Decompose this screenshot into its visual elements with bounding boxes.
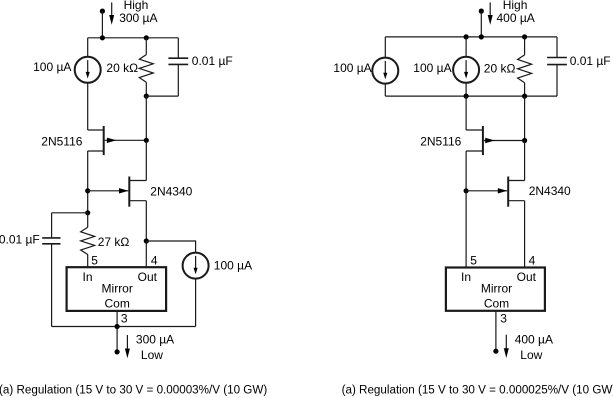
arrow inside I3 bbox=[383, 61, 387, 79]
svg-text:3: 3 bbox=[500, 311, 507, 325]
wire rail to Low terminal (left) bbox=[116, 327, 118, 352]
current source I4 100uA (right, inner) bbox=[453, 57, 479, 83]
svg-text:4: 4 bbox=[529, 254, 536, 268]
resistor R1 20k (left) bbox=[139, 38, 153, 96]
wire Q3 drain down to Q4 gate node (right) bbox=[465, 151, 467, 191]
svg-text:5: 5 bbox=[470, 254, 477, 268]
svg-text:3: 3 bbox=[121, 311, 128, 325]
current flow arrow High (left) bbox=[109, 2, 114, 24]
junction dot top rail / I4 (right) bbox=[464, 34, 469, 39]
svg-text:20 kΩ: 20 kΩ bbox=[106, 61, 138, 75]
wire top rail (right) bbox=[385, 36, 557, 38]
wire R1 bottom to capacitor C1 (left) bbox=[146, 95, 178, 97]
junction dot top rail / terminal (right) bbox=[479, 34, 484, 39]
svg-text:Low: Low bbox=[141, 348, 163, 362]
junction dot Q4 gate node (right) bbox=[464, 188, 469, 193]
svg-text:High: High bbox=[503, 0, 528, 12]
wire top rail to current source I1 (left) bbox=[87, 38, 89, 57]
junction dot top rail / 20k resistor (left) bbox=[144, 35, 149, 40]
op-amp block U1 Mirror (left) bbox=[67, 267, 167, 311]
wire pin 3 to Low terminal (right) bbox=[495, 311, 497, 351]
svg-text:Com: Com bbox=[105, 297, 130, 311]
wire R3 bottom down to Q3 gate (right) bbox=[524, 96, 526, 140]
junction dot bottom wire / R3 (right) bbox=[522, 94, 527, 99]
svg-text:2N4340: 2N4340 bbox=[529, 184, 571, 198]
svg-text:In: In bbox=[461, 270, 471, 284]
current source I1 100uA (left) bbox=[75, 57, 101, 83]
wire top rail to current source I4 (right) bbox=[465, 37, 467, 57]
node Low terminal (left) bbox=[115, 349, 120, 354]
svg-text:5: 5 bbox=[91, 253, 98, 267]
junction dot bottom rail (left) bbox=[115, 324, 120, 329]
svg-text:400 µA: 400 µA bbox=[515, 332, 553, 346]
svg-text:Com: Com bbox=[484, 297, 509, 311]
wire I4 to bottom wire (right) bbox=[465, 83, 467, 96]
wire Q1 drain down to Q2 gate node (left) bbox=[87, 151, 89, 213]
wire gate node down to Q4 drain corner (right) bbox=[524, 141, 526, 181]
junction dot Q2 gate node (left) bbox=[85, 188, 90, 193]
current flow arrow Low (left) bbox=[125, 335, 130, 358]
wire Q2 source to Out node (left) bbox=[145, 201, 147, 241]
svg-text:Low: Low bbox=[520, 348, 542, 362]
svg-text:(a) Regulation (15 V to 30 V =: (a) Regulation (15 V to 30 V = 0.00003%/… bbox=[0, 383, 267, 396]
current flow arrow Low (right) bbox=[504, 335, 509, 358]
wire I2 to bottom rail (left) bbox=[195, 279, 197, 327]
svg-text:100 µA: 100 µA bbox=[333, 61, 371, 75]
wire bottom wire to Q3 source lead (right) bbox=[465, 96, 467, 130]
svg-text:100 µA: 100 µA bbox=[413, 61, 451, 75]
junction dot left cap branch (left) bbox=[85, 210, 90, 215]
wire Out node to pin 4 (left) bbox=[145, 241, 147, 267]
current source I3 100uA (right, outer) bbox=[372, 58, 398, 84]
svg-text:4: 4 bbox=[151, 253, 158, 267]
capacitor C1 0.01uF (top left circuit) bbox=[168, 38, 188, 96]
wire Out node to current source I2 (left) bbox=[146, 241, 195, 253]
svg-text:20 kΩ: 20 kΩ bbox=[484, 61, 516, 75]
junction dot top rail / 20k resistor (right) bbox=[522, 34, 527, 39]
svg-text:27 kΩ: 27 kΩ bbox=[98, 235, 130, 249]
bottom rail (left) bbox=[52, 326, 196, 328]
svg-text:Out: Out bbox=[517, 270, 537, 284]
junction dot Out node (left) bbox=[144, 238, 149, 243]
svg-text:Mirror: Mirror bbox=[102, 282, 133, 296]
junction dot bottom of R1 (left) bbox=[144, 94, 149, 99]
svg-text:Out: Out bbox=[138, 270, 158, 284]
svg-text:2N5116: 2N5116 bbox=[41, 134, 82, 148]
transistor Q3 2N5116 (right) bbox=[466, 126, 524, 155]
wire terminal to top rail (right) bbox=[480, 11, 482, 37]
wire terminal to top rail (left) bbox=[101, 11, 103, 38]
wire gate node down to Q2 drain corner (left) bbox=[145, 140, 147, 180]
current flow arrow High (right) bbox=[488, 2, 493, 24]
capacitor C2 0.01uF (bottom left) bbox=[42, 213, 60, 327]
svg-text:2N5116: 2N5116 bbox=[420, 134, 461, 148]
junction dot top rail / terminal (left) bbox=[100, 35, 105, 40]
svg-text:100 µA: 100 µA bbox=[214, 259, 252, 273]
arrow inside I1 bbox=[86, 60, 90, 78]
svg-text:Mirror: Mirror bbox=[481, 282, 512, 296]
svg-text:In: In bbox=[82, 270, 92, 284]
wire I1 to 2N5116 source lead (left) bbox=[87, 83, 89, 130]
svg-text:0.01 µF: 0.01 µF bbox=[192, 54, 233, 68]
junction dot Q1 gate node (left) bbox=[144, 138, 149, 143]
resistor R3 20k (right) bbox=[518, 37, 532, 96]
wire pin 3 to bottom rail (left) bbox=[116, 311, 118, 327]
resistor R2 27k (left) bbox=[81, 213, 95, 267]
transistor Q4 2N4340 (right) bbox=[466, 177, 524, 207]
svg-text:0.01 µF: 0.01 µF bbox=[570, 54, 611, 68]
node High terminal (left) bbox=[100, 9, 105, 14]
wire Q4 gate node to pin 5 (right) bbox=[465, 191, 467, 268]
bottom wire of parallel group (right) bbox=[385, 95, 557, 97]
arrow inside I4 bbox=[464, 60, 468, 78]
wire top rail to current source I3 (right) bbox=[384, 37, 386, 58]
node Low terminal (right) bbox=[493, 349, 498, 354]
svg-text:400 µA: 400 µA bbox=[497, 11, 535, 25]
op-amp block U2 Mirror (right) bbox=[446, 268, 545, 311]
svg-text:100 µA: 100 µA bbox=[33, 60, 71, 74]
capacitor C3 0.01uF (right) bbox=[547, 37, 567, 96]
wire top rail (left) bbox=[88, 37, 179, 39]
junction dot Q3 gate node (right) bbox=[522, 138, 527, 143]
arrow inside I2 bbox=[194, 256, 198, 274]
wire to left capacitor branch (left) bbox=[52, 212, 88, 214]
svg-text:300 µA: 300 µA bbox=[136, 332, 174, 346]
current source I2 100uA (bottom left) bbox=[183, 253, 209, 279]
node High terminal (right) bbox=[479, 9, 484, 14]
junction dot bottom wire / I4 (right) bbox=[464, 94, 469, 99]
svg-text:2N4340: 2N4340 bbox=[150, 184, 192, 198]
wire Q4 source to pin 4 (right) bbox=[524, 201, 526, 268]
wire I3 to bottom wire (right) bbox=[384, 84, 386, 97]
svg-text:0.01 µF: 0.01 µF bbox=[0, 233, 40, 247]
wire R1 bottom node down to Q1 gate (left) bbox=[145, 96, 147, 140]
transistor Q2 2N4340 (left) bbox=[88, 177, 147, 207]
transistor Q1 2N5116 (left) bbox=[88, 126, 147, 155]
svg-text:300 µA: 300 µA bbox=[119, 11, 157, 25]
svg-text:(a) Regulation (15 V to 30 V =: (a) Regulation (15 V to 30 V = 0.000025%… bbox=[342, 383, 613, 396]
